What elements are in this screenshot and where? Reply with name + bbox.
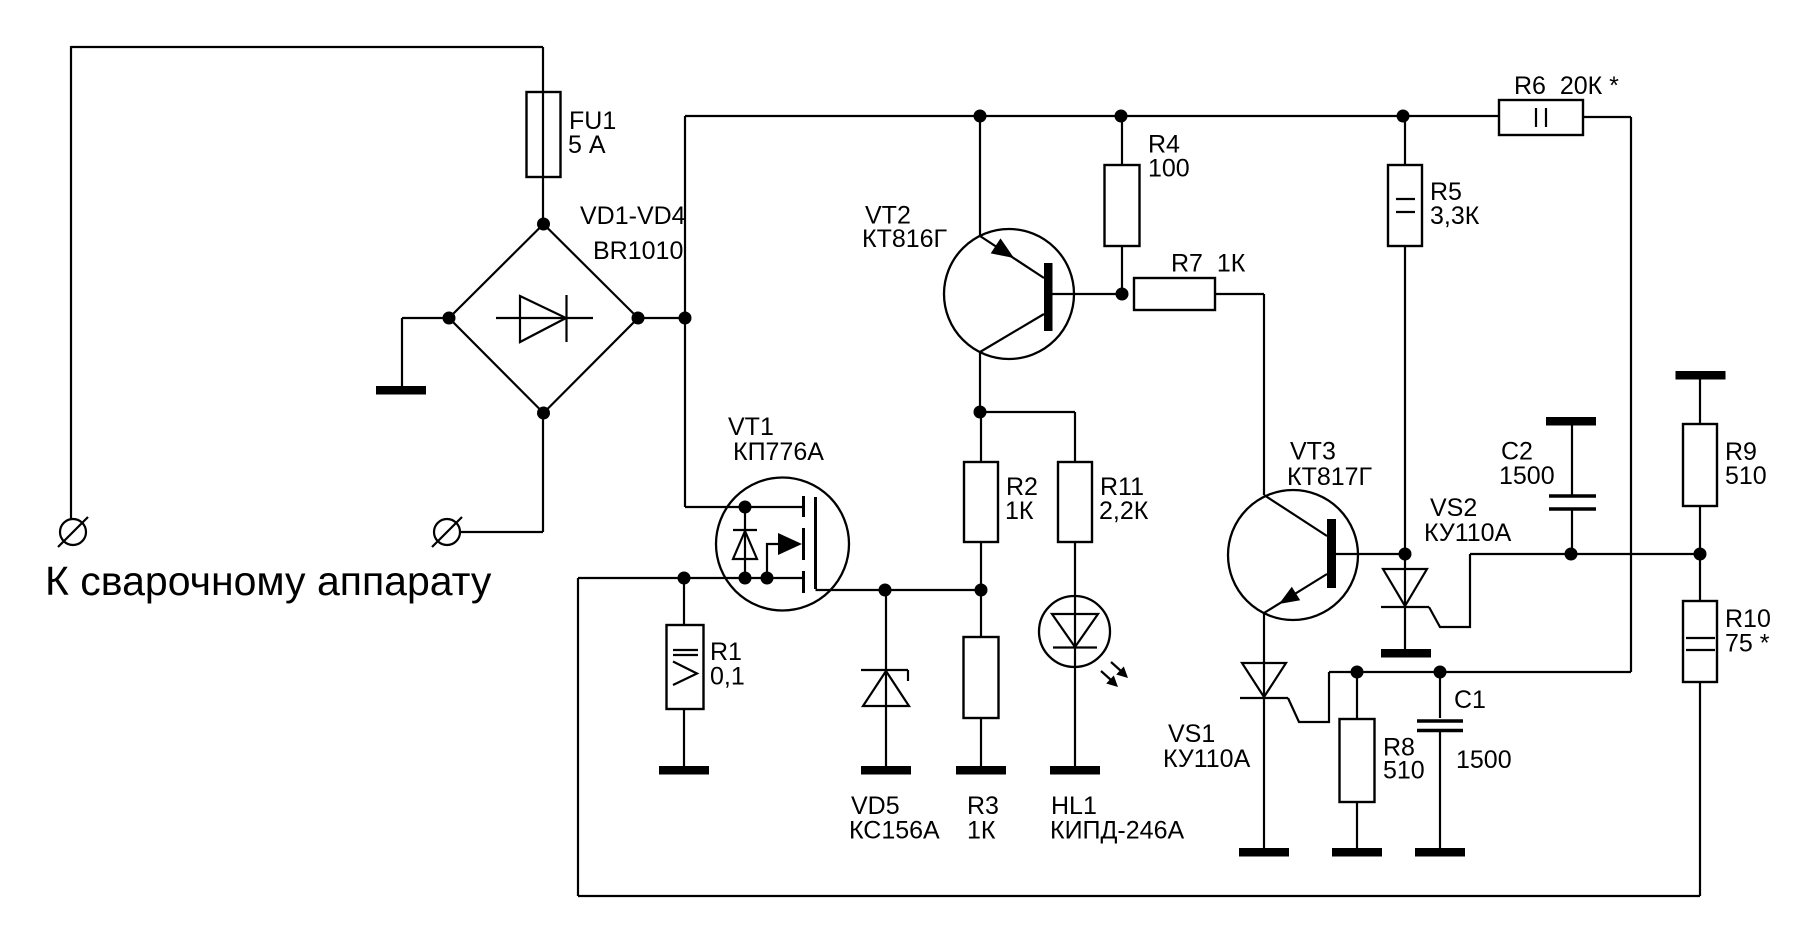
transistor VT2: [944, 229, 1122, 359]
ground (VS2): [1381, 649, 1431, 658]
label R2: [1005, 473, 1038, 525]
wire bottom return: [578, 578, 1700, 896]
wire VT1 source: [578, 577, 803, 579]
label R8: [1383, 734, 1425, 785]
wire VT2 collector: [979, 352, 981, 412]
svg-text:100: 100: [1148, 155, 1190, 183]
node R8 top: [1351, 666, 1364, 679]
wire R6 to VS1 gate node: [1583, 117, 1631, 672]
resistor R1: [667, 578, 704, 766]
svg-text:1К: 1К: [1005, 497, 1034, 525]
resistor R9: [1683, 379, 1717, 554]
resistor R4: [1105, 116, 1140, 294]
resistor R10: [1683, 554, 1717, 682]
wire top bus: [685, 115, 1499, 117]
node VT1 body diode top: [739, 501, 752, 514]
label R9: [1725, 438, 1767, 490]
node R2 R3 gate: [975, 584, 988, 597]
label input terminals: [45, 558, 492, 604]
thyristor VS1: [1240, 613, 1329, 848]
node plus rail: [679, 312, 692, 325]
label VD1-VD4 BR1010: [580, 202, 686, 265]
svg-text:R6 20К *: R6 20К *: [1514, 72, 1619, 100]
resistor R7: [1134, 278, 1215, 310]
node C1 top: [1434, 666, 1447, 679]
resistor R8: [1340, 672, 1375, 848]
svg-text:КУ110А: КУ110А: [1163, 745, 1251, 773]
svg-text:VD1-VD4: VD1-VD4: [580, 202, 686, 230]
wire R7 to VT3 collector: [1215, 294, 1264, 495]
label R10: [1725, 605, 1771, 658]
wire top input loop: [71, 46, 543, 519]
svg-text:3,3К: 3,3К: [1430, 202, 1480, 230]
svg-text:0,1: 0,1: [710, 663, 745, 691]
label VT1: [728, 413, 824, 466]
node VT2 base R4 R7: [1116, 288, 1129, 301]
terminal X2: [432, 517, 462, 547]
node C2 bottom: [1565, 548, 1578, 561]
fuse FU1: [527, 92, 561, 177]
svg-text:КУ110А: КУ110А: [1424, 519, 1512, 547]
resistor R6: [1499, 100, 1583, 135]
svg-text:1500: 1500: [1499, 462, 1555, 490]
label R6: [1514, 72, 1619, 100]
resistor R2: [964, 412, 998, 590]
resistor R3: [964, 590, 999, 766]
svg-text:VS2: VS2: [1430, 494, 1477, 522]
node bus R5: [1397, 110, 1410, 123]
node VT1 body diode bottom: [739, 572, 752, 585]
label C1: [1454, 686, 1512, 774]
ground (C1): [1415, 848, 1465, 857]
node bridge right: [632, 312, 645, 325]
terminal X1: [58, 517, 88, 547]
label R4: [1148, 131, 1190, 183]
wire VT1 drain: [685, 506, 803, 508]
resistor R11: [1058, 412, 1092, 542]
ground (bridge left): [376, 318, 449, 395]
capacitor C1: [1417, 672, 1463, 848]
node VT1 substrate: [761, 572, 774, 585]
ground (R9 top): [1676, 371, 1726, 380]
node bridge left: [443, 312, 456, 325]
label VD5: [849, 792, 940, 845]
svg-text:КП776А: КП776А: [733, 438, 824, 466]
label VS2: [1424, 494, 1512, 547]
ground (VD5): [861, 766, 911, 775]
wire VS2 gate to R9 R10: [1470, 553, 1700, 555]
label R5: [1430, 178, 1480, 230]
node VT2 collector R2 R11: [974, 406, 987, 419]
ground (R1): [659, 766, 709, 775]
svg-text:VT1: VT1: [728, 413, 774, 441]
wire VT2 emitter: [979, 116, 981, 236]
svg-text:R7 1К: R7 1К: [1171, 250, 1246, 278]
svg-text:1К: 1К: [967, 817, 996, 845]
svg-text:КС156А: КС156А: [849, 817, 940, 845]
label VS1: [1163, 720, 1251, 773]
transistor VT3: [1228, 490, 1405, 620]
label R1: [710, 638, 745, 691]
ground (VS1): [1239, 848, 1289, 857]
node bridge top: [537, 218, 550, 231]
svg-text:КТ816Г: КТ816Г: [862, 225, 948, 253]
node VD5 top: [879, 584, 892, 597]
label R7: [1171, 250, 1246, 278]
node VT3 base: [1399, 548, 1412, 561]
wire bridge plus to bus: [638, 116, 685, 507]
LED HL1: [1039, 542, 1128, 766]
transistor VT1 (MOSFET): [716, 478, 849, 611]
node R9 R10: [1694, 548, 1707, 561]
ground (R3): [956, 766, 1006, 775]
ground (C2 top): [1546, 417, 1596, 426]
svg-text:VS1: VS1: [1168, 720, 1215, 748]
node R1 top: [678, 572, 691, 585]
svg-text:К сварочному аппарату: К сварочному аппарату: [45, 558, 492, 604]
svg-text:КТ817Г: КТ817Г: [1287, 463, 1373, 491]
svg-text:VT3: VT3: [1290, 438, 1336, 466]
svg-text:510: 510: [1725, 462, 1767, 490]
label C2: [1499, 438, 1555, 491]
wire VT1 gate: [816, 589, 982, 591]
resistor R5: [1388, 116, 1422, 554]
wire VS1 gate node: [1329, 671, 1631, 673]
label R11: [1099, 473, 1149, 525]
zener VD5: [861, 590, 909, 766]
label VT2: [862, 202, 948, 254]
svg-text:510: 510: [1383, 757, 1425, 785]
diode bridge VD1-VD4: [449, 224, 638, 413]
wire R2 top to R11: [980, 411, 1075, 413]
ground (R8): [1332, 848, 1382, 857]
node bus VT2: [974, 110, 987, 123]
wire FU1 to bridge: [542, 177, 544, 224]
svg-text:1500: 1500: [1456, 746, 1512, 774]
ground (HL1): [1050, 766, 1100, 775]
label FU1: [568, 107, 616, 159]
svg-text:BR1010: BR1010: [593, 237, 683, 265]
svg-text:5 А: 5 А: [568, 131, 606, 159]
svg-text:2,2К: 2,2К: [1099, 497, 1149, 525]
capacitor C2: [1549, 425, 1596, 554]
label HL1: [1050, 792, 1184, 845]
svg-text:C1: C1: [1454, 686, 1486, 714]
label R3: [967, 792, 999, 845]
label VT3: [1287, 438, 1373, 492]
svg-text:75 *: 75 *: [1725, 630, 1770, 658]
thyristor VS2: [1381, 554, 1470, 649]
node bridge bottom: [537, 407, 550, 420]
wire X2 to bridge: [460, 413, 543, 532]
node bus R4: [1115, 110, 1128, 123]
svg-text:КИПД-246А: КИПД-246А: [1050, 817, 1184, 845]
